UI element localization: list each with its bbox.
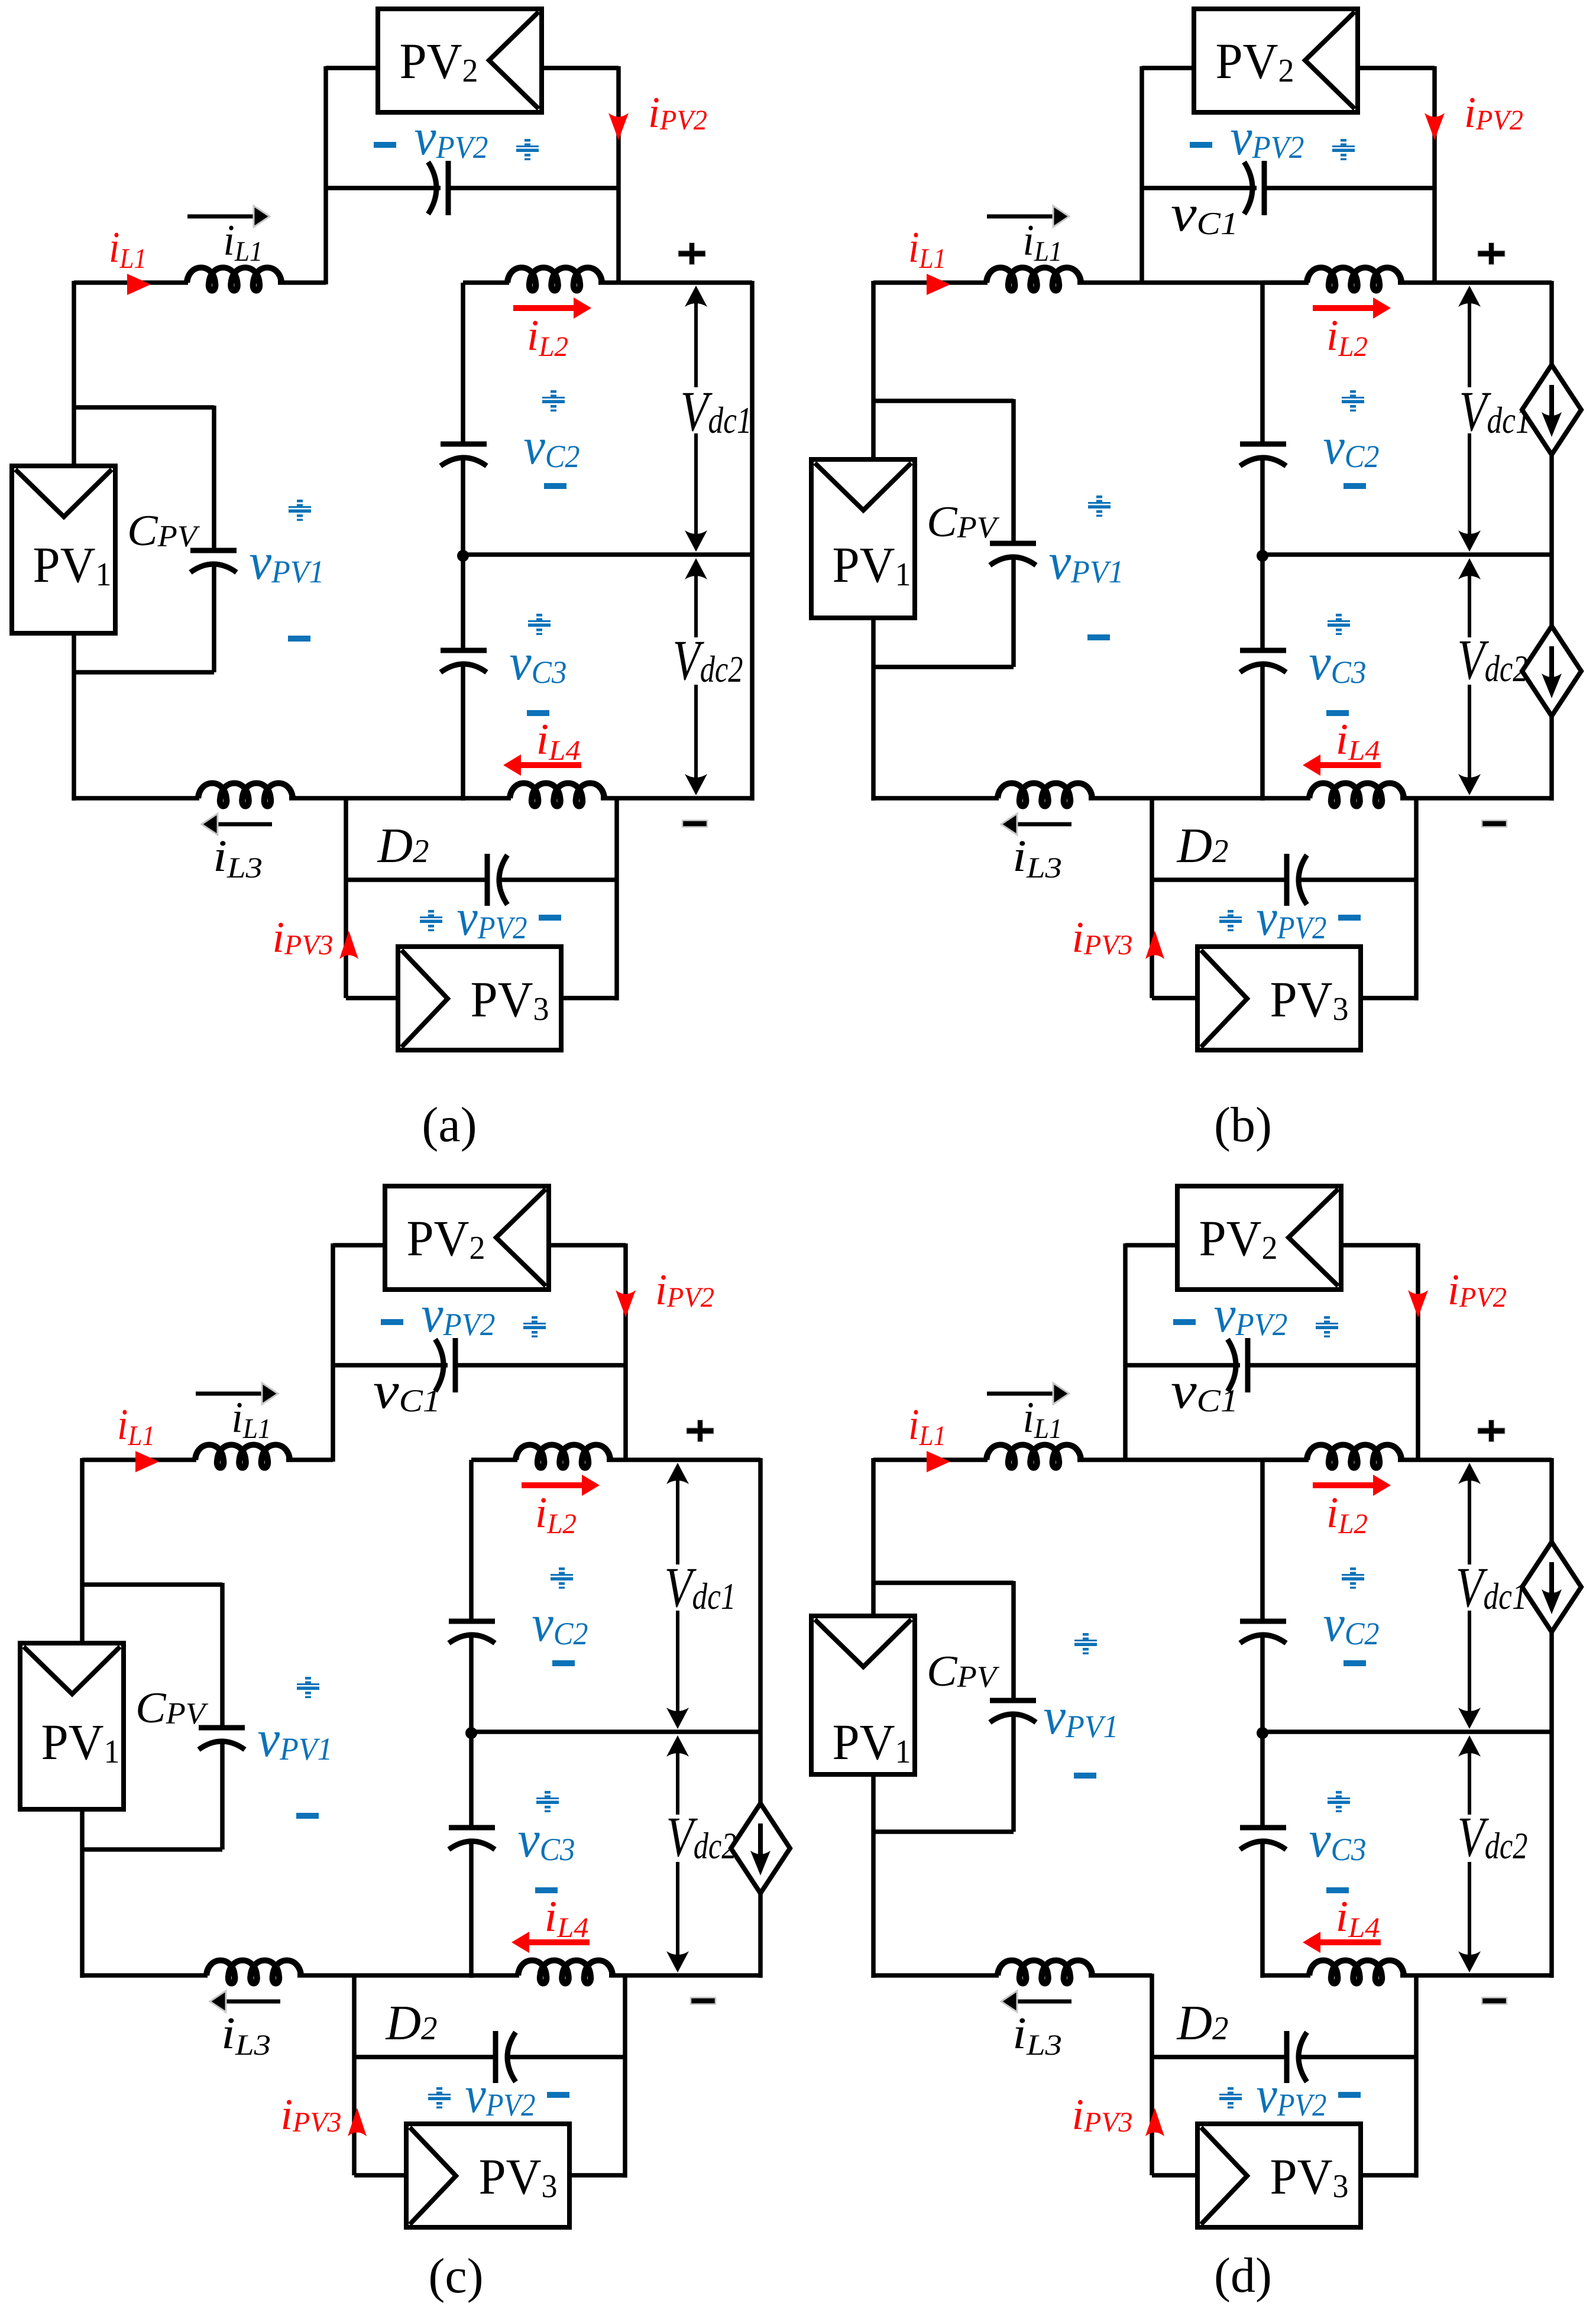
current arrow iL4 (c) bbox=[512, 1932, 590, 1953]
current arrow iPV3 (a) bbox=[339, 931, 358, 959]
wire CPV bottom branch (b) bbox=[872, 556, 1014, 667]
voltage arrow Vdc2 (d) bbox=[1458, 1735, 1481, 1972]
wire middle output (c) bbox=[471, 1729, 760, 1734]
capacitor C1 (d) bbox=[1228, 1338, 1248, 1392]
wire bottom left segment (b) bbox=[872, 796, 999, 801]
wire bottom rail segment (d) bbox=[1262, 1973, 1310, 1978]
label Vdc1 (b) bbox=[1459, 380, 1531, 443]
wire D2 row left (a) bbox=[346, 877, 487, 882]
current arrow iPV3 (c) bbox=[348, 2108, 367, 2136]
polarity plus vPV2 (a) bbox=[516, 139, 539, 160]
dependent source Vdc2 diamond (b) bbox=[1522, 626, 1581, 716]
current arrow iL3 (a) bbox=[202, 814, 272, 835]
dependent source Vdc1 diamond (b) bbox=[1522, 365, 1581, 455]
wire left vertical lower (c) bbox=[80, 1809, 85, 1978]
wire left rail upper (b) bbox=[1260, 283, 1265, 444]
wire left rail upper (d) bbox=[1260, 1460, 1265, 1621]
wire D2 row right (b) bbox=[1301, 877, 1416, 882]
wire iL1 to iL2 continuous (d) bbox=[1077, 1457, 1309, 1462]
reference arrow iL1 black (b) bbox=[987, 206, 1069, 227]
polarity minus vPV2 bottom (b) bbox=[1338, 915, 1361, 921]
capacitor D2 (d) bbox=[1287, 2031, 1307, 2083]
inductor L2 (a) bbox=[507, 268, 602, 291]
polarity minus vC3 (a) bbox=[527, 710, 549, 716]
label Vdc2 (d) bbox=[1458, 1805, 1528, 1868]
wire bottom left segment (c) bbox=[80, 1973, 208, 1978]
wire PV3 right lead (a) bbox=[561, 880, 617, 1000]
label Vdc1 (d) bbox=[1456, 1556, 1527, 1619]
wire D2 left vertical (a) bbox=[344, 796, 348, 998]
current arrow iL4 (a) bbox=[503, 754, 581, 776]
wire vertical left of C1 (a) bbox=[323, 66, 328, 284]
label Vdc2 (b) bbox=[1458, 628, 1528, 691]
wire PV3 left lead (c) bbox=[354, 2173, 406, 2178]
wire right rail (a) bbox=[750, 281, 755, 801]
label iPV2 (a) bbox=[648, 89, 707, 137]
wire left vertical upper (b) bbox=[871, 281, 876, 462]
wire D2 row right (c) bbox=[510, 2055, 625, 2059]
label D2 (a) bbox=[377, 818, 429, 873]
label iPV2 (b) bbox=[1464, 89, 1523, 137]
wire middle output (d) bbox=[1262, 1729, 1552, 1734]
wire iL2 left lead / rail top (c) bbox=[471, 1457, 517, 1462]
wire CPV top branch (d) bbox=[872, 1581, 1014, 1701]
wire vertical right of C1 / iPV2 branch (c) bbox=[623, 1243, 628, 1462]
dependent source Vdc1 diamond (d) bbox=[1522, 1542, 1581, 1632]
capacitor CPV (c) bbox=[199, 1728, 245, 1750]
wire D2 right vertical (c) bbox=[623, 1974, 627, 2057]
wire right rail (d) bbox=[1549, 1458, 1554, 1978]
capacitor C2 (a) bbox=[441, 444, 487, 466]
label vPV2 of C1 (c) bbox=[422, 1286, 496, 1343]
polarity plus vC2 (d) bbox=[1342, 1567, 1364, 1589]
wire PV3 left lead (b) bbox=[1152, 996, 1197, 1000]
polarity plus vPV1 (c) bbox=[297, 1677, 319, 1698]
wire PV3 right lead (b) bbox=[1361, 880, 1416, 1000]
node junction dot (d) bbox=[1257, 1727, 1268, 1739]
label iL4 (c) bbox=[545, 1893, 589, 1944]
label iL1 red (b) bbox=[908, 223, 946, 274]
label iPV2 (c) bbox=[655, 1266, 714, 1314]
inductor L2 (b) bbox=[1307, 268, 1401, 291]
polarity plus output (a) bbox=[679, 243, 705, 264]
label vPV2 of PV3 (c) bbox=[465, 2066, 536, 2124]
wire bottom middle segment (a) bbox=[289, 796, 511, 801]
wire left vertical lower (d) bbox=[871, 1774, 876, 1978]
polarity plus vC3 (a) bbox=[528, 614, 551, 635]
label vPV1 (c) bbox=[258, 1711, 333, 1768]
current arrow iL1 red (a) bbox=[127, 274, 151, 295]
inductor L4 (a) bbox=[510, 783, 604, 806]
wire iL1 to iL2 continuous (b) bbox=[1077, 280, 1309, 285]
wire CPV bottom branch (c) bbox=[80, 1740, 222, 1849]
current arrow iL1 red (c) bbox=[135, 1451, 159, 1472]
wire C1 right segment (a) bbox=[451, 186, 619, 190]
label vC1 (d) bbox=[1171, 1362, 1238, 1420]
svg-text:(b): (b) bbox=[1214, 1097, 1272, 1152]
polarity plus output (c) bbox=[687, 1420, 714, 1442]
polarity plus vPV2 bottom (a) bbox=[420, 910, 442, 931]
caption (c) bbox=[428, 2249, 483, 2304]
polarity minus vPV2 bottom (a) bbox=[539, 915, 561, 921]
wire bottom right segment (c) bbox=[609, 1973, 760, 1978]
capacitor C3 (a) bbox=[441, 650, 487, 672]
wire C1 left segment (a) bbox=[326, 186, 441, 190]
wire left rail upper (c) bbox=[469, 1460, 474, 1621]
capacitor C1 (c) bbox=[435, 1338, 455, 1392]
polarity plus vPV2 (c) bbox=[523, 1316, 546, 1337]
capacitor CPV (b) bbox=[990, 543, 1036, 565]
wire vertical right of C1 / iPV2 branch (b) bbox=[1432, 66, 1437, 284]
polarity minus vPV1 (a) bbox=[288, 636, 310, 642]
capacitor C2 (d) bbox=[1240, 1621, 1286, 1643]
label CPV (b) bbox=[927, 498, 999, 546]
wire D2 row left (c) bbox=[354, 2055, 496, 2059]
wire left rail upper (a) bbox=[461, 283, 465, 444]
label Vdc2 (a) bbox=[673, 629, 743, 692]
label iPV3 (c) bbox=[281, 2091, 342, 2139]
PV module PV1 (b) bbox=[811, 459, 915, 618]
inductor L3 (d) bbox=[998, 1961, 1092, 1984]
wire PV3 left lead (a) bbox=[346, 996, 398, 1000]
wire vertical right of C1 / iPV2 branch (a) bbox=[616, 66, 621, 284]
wire PV2 right lead (b) bbox=[1358, 66, 1435, 70]
wire CPV top branch (b) bbox=[872, 399, 1014, 544]
capacitor C1 (a) bbox=[428, 161, 448, 215]
wire vertical left of C1 (d) bbox=[1123, 1243, 1128, 1462]
label iL3 (b) bbox=[1012, 831, 1062, 884]
wire iL2 left lead / rail top (d) bbox=[1262, 1457, 1309, 1462]
polarity plus vC3 (c) bbox=[536, 1791, 559, 1812]
capacitor C3 (d) bbox=[1240, 1828, 1286, 1849]
label vPV2 of PV3 (b) bbox=[1257, 889, 1327, 947]
polarity minus vPV2 bottom (c) bbox=[547, 2092, 569, 2098]
wire PV2 left lead (c) bbox=[333, 1243, 385, 1248]
wire vertical right of C1 / iPV2 branch (d) bbox=[1416, 1243, 1420, 1462]
polarity minus output (b) bbox=[1482, 821, 1507, 827]
polarity plus vPV2 bottom (b) bbox=[1219, 910, 1242, 931]
label iL2 (c) bbox=[535, 1489, 577, 1540]
current arrow iL2 (b) bbox=[1313, 297, 1391, 319]
inductor L1 (a) bbox=[187, 268, 281, 291]
polarity minus vPV2 (c) bbox=[381, 1319, 403, 1325]
capacitor C1 (b) bbox=[1244, 161, 1264, 215]
wire iL1 left segment (c) bbox=[82, 1457, 196, 1462]
current arrow iL3 (c) bbox=[210, 1991, 280, 2012]
wire left vertical upper (c) bbox=[80, 1458, 85, 1646]
label vC3 (d) bbox=[1309, 1811, 1367, 1868]
current arrow iL4 (b) bbox=[1303, 754, 1381, 776]
label vPV1 (a) bbox=[250, 533, 325, 591]
capacitor D2 (b) bbox=[1287, 854, 1307, 906]
label D2 (b) bbox=[1177, 818, 1229, 873]
PV module PV2 (b) bbox=[1194, 9, 1358, 112]
polarity minus output (c) bbox=[691, 1998, 716, 2004]
current arrow iL1 red (d) bbox=[927, 1451, 950, 1472]
label vPV2 of C1 (d) bbox=[1214, 1286, 1288, 1343]
capacitor C2 (c) bbox=[449, 1621, 495, 1643]
polarity plus vC3 (d) bbox=[1328, 1791, 1350, 1812]
wire C1 left segment (c) bbox=[333, 1363, 448, 1368]
capacitor D2 (c) bbox=[496, 2031, 516, 2083]
wire left rail lower (a) bbox=[461, 663, 465, 801]
voltage arrow Vdc2 (a) bbox=[685, 558, 707, 795]
label D2 (d) bbox=[1177, 1996, 1229, 2051]
label iL4 (a) bbox=[536, 715, 581, 766]
label CPV (c) bbox=[135, 1684, 208, 1732]
current arrow iL4 (d) bbox=[1303, 1932, 1381, 1953]
PV module PV3 (a) bbox=[398, 947, 561, 1050]
voltage arrow Vdc1 (b) bbox=[1458, 286, 1481, 552]
label vC3 (a) bbox=[510, 634, 567, 691]
polarity plus vPV1 (a) bbox=[289, 500, 311, 521]
label vPV2 of C1 (b) bbox=[1231, 109, 1304, 166]
label vC1 (b) bbox=[1171, 185, 1238, 242]
polarity minus vC3 (c) bbox=[535, 1887, 558, 1893]
polarity minus vPV2 bottom (d) bbox=[1338, 2092, 1361, 2098]
wire left vertical upper (d) bbox=[871, 1458, 876, 1618]
label iL3 (c) bbox=[221, 2009, 271, 2061]
wire PV3 right lead (c) bbox=[569, 2057, 625, 2178]
inductor L3 (a) bbox=[198, 783, 293, 806]
polarity minus vPV2 (b) bbox=[1190, 142, 1212, 148]
capacitor D2 (a) bbox=[487, 854, 507, 906]
wire left rail middle (c) bbox=[469, 1634, 474, 1828]
wire middle output (a) bbox=[463, 552, 752, 557]
label iL3 (d) bbox=[1012, 2009, 1062, 2061]
node junction dot (c) bbox=[465, 1727, 477, 1739]
dependent source Vdc2 diamond (c) bbox=[731, 1803, 790, 1893]
inductor L3 (c) bbox=[206, 1961, 301, 1984]
wire right rail (b) bbox=[1549, 281, 1554, 801]
label iPV3 (a) bbox=[273, 914, 334, 962]
polarity minus vPV2 (d) bbox=[1173, 1319, 1196, 1325]
label vC2 (d) bbox=[1323, 1595, 1380, 1653]
wire D2 left vertical (d) bbox=[1150, 1974, 1154, 2175]
voltage arrow Vdc2 (c) bbox=[666, 1735, 689, 1972]
wire bottom to D2 corner (d) bbox=[1089, 1973, 1152, 1978]
polarity plus vC2 (a) bbox=[542, 390, 565, 412]
wire left vertical lower (b) bbox=[871, 618, 876, 801]
svg-text:(d): (d) bbox=[1214, 2248, 1272, 2303]
PV module PV3 (d) bbox=[1197, 2124, 1361, 2227]
polarity minus vPV1 (c) bbox=[296, 1813, 319, 1819]
inductor L4 (d) bbox=[1309, 1961, 1404, 1984]
reference arrow iL1 black (d) bbox=[987, 1383, 1069, 1404]
wire C1 right segment (c) bbox=[458, 1363, 626, 1368]
label Vdc1 (c) bbox=[665, 1556, 736, 1619]
capacitor CPV (a) bbox=[190, 550, 237, 572]
node junction dot (a) bbox=[457, 550, 469, 562]
wire D2 row right (a) bbox=[501, 877, 617, 882]
label iL4 (b) bbox=[1336, 715, 1380, 766]
wire PV3 left lead (d) bbox=[1152, 2173, 1197, 2178]
polarity plus vPV1 (d) bbox=[1074, 1633, 1097, 1654]
polarity plus vPV1 (b) bbox=[1088, 495, 1111, 517]
inductor L1 (b) bbox=[986, 268, 1081, 291]
label vPV1 (b) bbox=[1049, 533, 1124, 591]
voltage arrow Vdc1 (d) bbox=[1458, 1463, 1481, 1729]
voltage arrow Vdc1 (a) bbox=[685, 286, 707, 552]
label vC2 (b) bbox=[1323, 418, 1380, 475]
polarity plus vC2 (b) bbox=[1342, 390, 1364, 412]
wire left rail lower (d) bbox=[1260, 1840, 1265, 1978]
label D2 (c) bbox=[386, 1996, 438, 2051]
wire bottom left segment (a) bbox=[72, 796, 199, 801]
wire iL1 left segment (a) bbox=[74, 280, 188, 285]
current arrow iPV3 (b) bbox=[1145, 931, 1164, 959]
polarity minus vPV2 (a) bbox=[374, 142, 396, 148]
PV module PV3 (b) bbox=[1197, 947, 1361, 1050]
wire iL2 right segment (a) bbox=[598, 280, 752, 285]
inductor L2 (c) bbox=[516, 1445, 610, 1468]
wire left rail middle (d) bbox=[1260, 1634, 1265, 1828]
wire bottom right segment (d) bbox=[1400, 1973, 1552, 1978]
wire D2 row right (d) bbox=[1301, 2055, 1416, 2059]
wire PV2 right lead (c) bbox=[549, 1243, 626, 1248]
caption (a) bbox=[422, 1097, 477, 1152]
label CPV (d) bbox=[927, 1647, 999, 1696]
wire iL2 right segment (b) bbox=[1398, 280, 1552, 285]
polarity plus output (b) bbox=[1478, 243, 1505, 264]
current arrow iL2 (d) bbox=[1313, 1475, 1391, 1496]
capacitor C3 (c) bbox=[449, 1828, 495, 1849]
wire PV2 right lead (d) bbox=[1341, 1243, 1418, 1248]
wire bottom right segment (a) bbox=[601, 796, 752, 801]
PV module PV1 (c) bbox=[20, 1643, 124, 1809]
polarity plus vPV2 bottom (c) bbox=[428, 2087, 451, 2108]
wire iL1 right segment (c) bbox=[286, 1457, 333, 1462]
current arrow iL1 red (b) bbox=[927, 274, 950, 295]
wire PV2 left lead (a) bbox=[326, 66, 378, 70]
label iL1 black (a) bbox=[224, 216, 263, 267]
label iL1 red (d) bbox=[908, 1401, 946, 1452]
label iL1 red (a) bbox=[109, 223, 147, 274]
label Vdc2 (c) bbox=[666, 1805, 737, 1868]
polarity minus vC3 (d) bbox=[1326, 1887, 1349, 1893]
wire bottom middle segment (c) bbox=[297, 1973, 519, 1978]
reference arrow iL1 black (c) bbox=[196, 1383, 278, 1404]
wire bottom left segment (d) bbox=[872, 1973, 999, 1978]
PV module PV3 (c) bbox=[406, 2124, 569, 2227]
label iL1 black (b) bbox=[1023, 216, 1063, 267]
polarity minus vC3 (b) bbox=[1326, 710, 1349, 716]
svg-text:(c): (c) bbox=[428, 2249, 483, 2304]
wire iL1 left segment (d) bbox=[873, 1457, 988, 1462]
label vPV2 of PV3 (a) bbox=[457, 889, 527, 947]
label iPV3 (b) bbox=[1072, 914, 1133, 962]
current arrow iPV2 (c) bbox=[616, 1290, 636, 1317]
polarity plus vPV2 (b) bbox=[1332, 139, 1355, 160]
label iPV3 (d) bbox=[1072, 2091, 1133, 2139]
polarity plus output (d) bbox=[1478, 1420, 1505, 1442]
svg-text:(a): (a) bbox=[422, 1097, 477, 1152]
wire D2 right vertical (a) bbox=[614, 796, 619, 880]
wire iL2 left lead / rail top (a) bbox=[463, 280, 509, 285]
wire iL2 right segment (d) bbox=[1398, 1457, 1552, 1462]
polarity plus vC2 (c) bbox=[551, 1567, 573, 1589]
wire iL2 left lead / rail top (b) bbox=[1262, 280, 1309, 285]
wire bottom middle segment (b) bbox=[1089, 796, 1310, 801]
PV module PV1 (d) bbox=[811, 1616, 915, 1774]
wire PV2 right lead (a) bbox=[542, 66, 619, 70]
wire C1 left segment (d) bbox=[1125, 1363, 1240, 1368]
polarity plus vPV2 bottom (d) bbox=[1219, 2087, 1242, 2108]
polarity plus vPV2 (d) bbox=[1316, 1316, 1338, 1337]
inductor L3 (b) bbox=[998, 783, 1092, 806]
label iL2 (d) bbox=[1326, 1489, 1368, 1540]
caption (d) bbox=[1214, 2248, 1272, 2303]
label iL1 black (c) bbox=[232, 1394, 271, 1444]
label vC3 (c) bbox=[518, 1811, 575, 1868]
wire C1 right segment (b) bbox=[1267, 186, 1435, 190]
wire left rail middle (a) bbox=[461, 456, 465, 650]
capacitor CPV (d) bbox=[990, 1700, 1036, 1722]
wire PV2 left lead (b) bbox=[1142, 66, 1194, 70]
label vC1 (c) bbox=[373, 1362, 441, 1420]
wire left vertical upper (a) bbox=[72, 281, 76, 468]
wire left vertical lower (a) bbox=[72, 633, 76, 801]
inductor L1 (c) bbox=[195, 1445, 290, 1468]
PV module PV2 (d) bbox=[1177, 1186, 1341, 1290]
wire D2 right vertical (d) bbox=[1414, 1974, 1419, 2057]
wire D2 right vertical (b) bbox=[1414, 796, 1419, 880]
wire vertical left of C1 (b) bbox=[1139, 66, 1144, 284]
label Vdc1 (a) bbox=[681, 380, 752, 443]
inductor L1 (d) bbox=[986, 1445, 1081, 1468]
label vPV2 of PV3 (d) bbox=[1257, 2066, 1327, 2124]
PV module PV2 (a) bbox=[378, 9, 542, 112]
wire iL1 right segment (a) bbox=[278, 280, 326, 285]
wire D2 left vertical (c) bbox=[352, 1974, 357, 2175]
polarity plus vC3 (b) bbox=[1328, 614, 1350, 635]
wire PV2 left lead (d) bbox=[1125, 1243, 1177, 1248]
current arrow iPV2 (a) bbox=[608, 113, 629, 140]
PV module PV1 (a) bbox=[12, 466, 115, 633]
current arrow iPV3 (d) bbox=[1145, 2108, 1164, 2136]
label vC2 (c) bbox=[532, 1595, 588, 1653]
wire iL2 right segment (c) bbox=[607, 1457, 760, 1462]
wire PV3 right lead (d) bbox=[1361, 2057, 1416, 2178]
current arrow iL3 (b) bbox=[1001, 814, 1071, 835]
capacitor C3 (b) bbox=[1240, 650, 1286, 672]
voltage arrow Vdc2 (b) bbox=[1458, 558, 1481, 795]
label iL1 red (c) bbox=[117, 1401, 155, 1452]
caption (b) bbox=[1214, 1097, 1272, 1152]
wire middle output (b) bbox=[1262, 552, 1552, 557]
wire left rail lower (b) bbox=[1260, 663, 1265, 801]
wire left rail middle (b) bbox=[1260, 456, 1265, 650]
wire C1 left segment (b) bbox=[1142, 186, 1257, 190]
label vC3 (b) bbox=[1309, 634, 1367, 691]
wire right rail (c) bbox=[758, 1458, 763, 1978]
current arrow iL2 (c) bbox=[522, 1475, 600, 1496]
label vPV2 of C1 (a) bbox=[415, 109, 488, 166]
polarity minus vC2 (a) bbox=[544, 483, 566, 489]
inductor L4 (b) bbox=[1309, 783, 1404, 806]
polarity minus output (a) bbox=[682, 821, 707, 827]
reference arrow iL1 black (a) bbox=[187, 206, 270, 227]
PV module PV2 (c) bbox=[385, 1186, 549, 1290]
wire vertical left of C1 (c) bbox=[331, 1243, 335, 1462]
voltage arrow Vdc1 (c) bbox=[666, 1463, 689, 1729]
label iL1 black (d) bbox=[1023, 1394, 1063, 1444]
current arrow iPV2 (d) bbox=[1408, 1290, 1428, 1317]
wire CPV bottom branch (a) bbox=[72, 563, 214, 672]
current arrow iL2 (a) bbox=[513, 297, 591, 319]
label CPV (a) bbox=[127, 507, 200, 555]
polarity minus vPV1 (d) bbox=[1074, 1773, 1096, 1779]
